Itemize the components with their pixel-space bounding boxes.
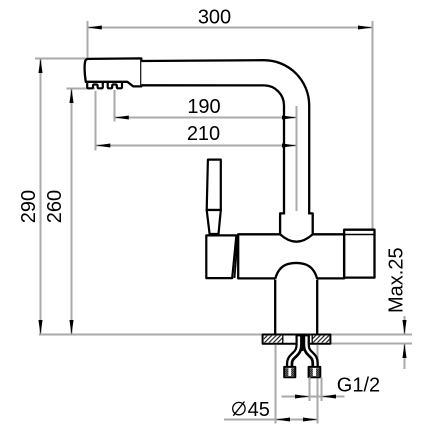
dimension 190 line: [115, 117, 297, 119]
spout tube and downpipe outline: [141, 60, 309, 214]
hub joint line: [235, 235, 238, 278]
diameter 45 left arrow: [276, 417, 291, 421]
mounting flange: [263, 335, 331, 344]
dimension 300 line: [88, 27, 373, 29]
hose left white core: [289, 336, 299, 369]
diameter 45 dimension line: [224, 419, 318, 421]
flange hatch left: [264, 336, 283, 343]
svg-text:260: 260: [44, 190, 66, 223]
dimension 190 right arrow: [282, 115, 297, 119]
aerator tab 1: [87, 83, 103, 89]
dimension 260 line: [71, 88, 73, 334]
body right connection piece: [344, 230, 374, 278]
diameter symbol: [233, 402, 245, 414]
diameter 45 right arrow: [303, 417, 318, 421]
center stud: [300, 343, 304, 351]
dimension 260 top arrow: [69, 89, 73, 104]
deck hole edge left: [282, 335, 284, 344]
dimension 260 bottom arrow: [69, 320, 73, 335]
dimension 210 right arrow: [282, 143, 297, 147]
dimension 210 line: [96, 145, 297, 147]
Max.25 upper arrow: [402, 320, 406, 335]
pipe centerline extension: [296, 106, 298, 211]
deck hole edge right: [311, 335, 313, 344]
Max.25 lower arrow: [402, 344, 406, 359]
deck bottom line (Max.25 lower reference): [330, 343, 412, 345]
dimension 300 left arrow: [87, 25, 102, 29]
pipe socket on body: [280, 213, 313, 241]
dimension 290 top arrow: [38, 59, 42, 74]
svg-text:Max.25: Max.25: [385, 247, 407, 313]
G1/2 extension lines: [310, 377, 322, 401]
dimension 300 right arrow: [358, 25, 373, 29]
svg-text:290: 290: [18, 190, 40, 223]
dimension 210 left arrow: [96, 143, 111, 147]
dimension 290 bottom arrow: [38, 320, 42, 335]
extension line spout outlet (210 ref): [95, 91, 97, 151]
handle lever stick: [207, 160, 221, 210]
hose connector right: [309, 367, 321, 377]
riser column right edge: [316, 279, 318, 335]
G1/2 left arrow: [295, 394, 310, 398]
handle neck cone: [207, 210, 221, 234]
svg-text:300: 300: [198, 7, 231, 29]
handle hub: [206, 235, 236, 278]
extension line right of 300 dim: [372, 21, 374, 229]
dimension 290 line: [40, 59, 42, 335]
hose right white core: [306, 336, 315, 369]
svg-text:190: 190: [187, 96, 220, 118]
riser column: [276, 279, 316, 335]
svg-text:45: 45: [248, 399, 270, 421]
riser column left edge: [274, 279, 276, 335]
deck countertop line: [39, 334, 412, 336]
body main cylinder: [238, 234, 344, 278]
extension line left of 300 dim: [87, 21, 89, 58]
connector left threads: [285, 368, 288, 376]
extension line spout top (290 ref): [35, 58, 88, 60]
hose left black: [290, 335, 300, 367]
aerator tab 2: [108, 83, 122, 89]
right piece chamfer line: [344, 234, 374, 236]
diameter 45 extension lines: [276, 345, 318, 424]
dome transition body to column: [275, 263, 317, 280]
hose connector left: [284, 367, 295, 377]
spout head: [85, 58, 142, 86]
G1/2 right arrow: [322, 394, 337, 398]
flange hatch right: [312, 336, 329, 343]
extension line filtered outlet (190 ref): [114, 90, 116, 122]
Max.25 dimension line: [404, 316, 406, 369]
spout tube and downpipe fill: [141, 60, 309, 215]
hose right black: [306, 335, 315, 367]
dimension 190 left arrow: [114, 115, 129, 119]
connector right threads: [310, 368, 313, 376]
svg-text:210: 210: [187, 123, 220, 145]
G1/2 dimension line: [282, 396, 345, 398]
svg-text:G1/2: G1/2: [337, 375, 380, 397]
extension line aerator bottom (260 ref): [67, 88, 96, 90]
